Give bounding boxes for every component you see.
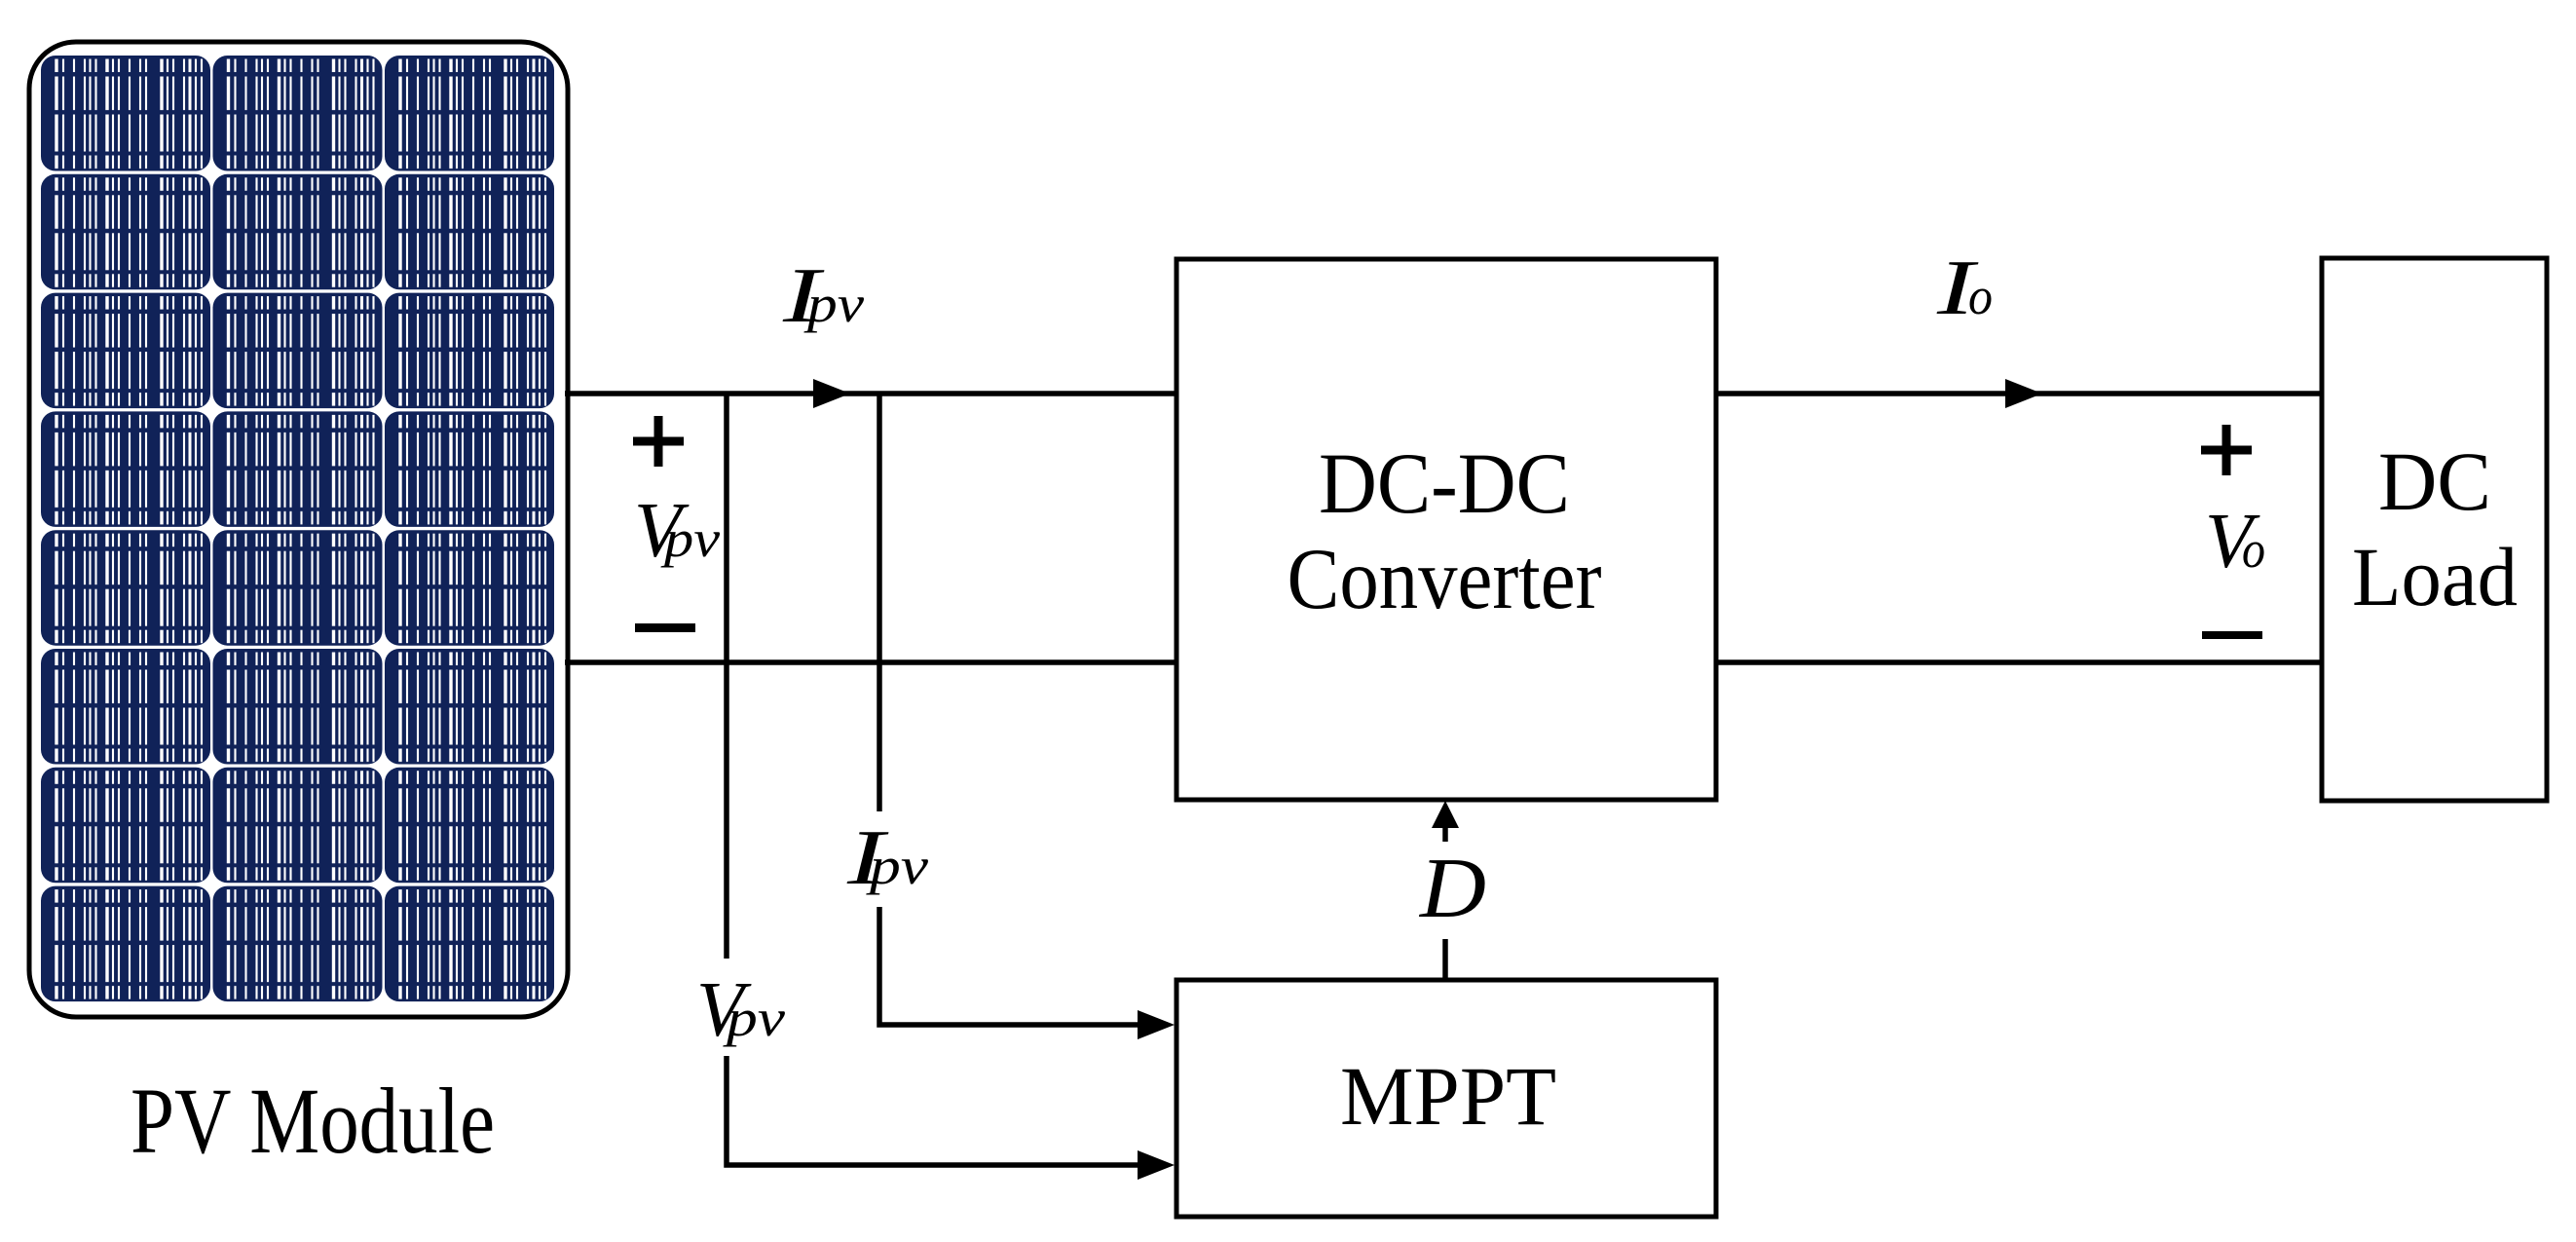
box DC-DC converter xyxy=(1176,259,1716,800)
svg-text:o: o xyxy=(1968,267,1993,325)
label minus right xyxy=(2202,631,2262,639)
wire top left xyxy=(565,391,1176,396)
wire Vpv sense vertical lower + horizontal into MPPT xyxy=(727,1056,1139,1165)
wire top right xyxy=(1716,391,2322,396)
svg-text:DC: DC xyxy=(2378,434,2491,528)
svg-text:D: D xyxy=(1419,842,1486,936)
label + right xyxy=(2201,425,2252,475)
PV module cells xyxy=(41,56,554,1001)
svg-text:pv: pv xyxy=(660,509,721,568)
svg-text:o: o xyxy=(2242,520,2265,579)
svg-text:pv: pv xyxy=(722,989,785,1047)
arrow Io on top-right wire xyxy=(2005,379,2042,408)
svg-text:DC-DC: DC-DC xyxy=(1319,436,1570,532)
svg-text:pv: pv xyxy=(803,275,864,333)
wire D stem upper xyxy=(1442,826,1448,842)
arrow Vpv into MPPT xyxy=(1138,1150,1175,1180)
box DC load xyxy=(2322,258,2547,801)
wire Vpv sense vertical upper xyxy=(724,392,729,960)
label + left xyxy=(633,416,684,467)
svg-text:PV Module: PV Module xyxy=(131,1069,495,1173)
wire Ipv sense vertical lower + horizontal into MPPT xyxy=(879,907,1139,1025)
PV module cell texture xyxy=(41,56,557,1005)
label minus left xyxy=(635,623,695,632)
arrow Ipv on top-left wire xyxy=(813,379,850,408)
arrow Ipv into MPPT xyxy=(1138,1010,1175,1039)
svg-text:MPPT: MPPT xyxy=(1340,1049,1556,1143)
wire bottom right xyxy=(1716,659,2322,665)
wire D stem lower xyxy=(1442,939,1448,980)
arrow D into converter xyxy=(1432,801,1459,828)
box MPPT xyxy=(1176,980,1716,1217)
svg-text:Converter: Converter xyxy=(1288,532,1602,627)
wire Ipv sense vertical upper xyxy=(877,392,882,812)
wire bottom left xyxy=(565,659,1176,665)
PV module frame xyxy=(29,42,568,1017)
svg-text:Load: Load xyxy=(2352,530,2518,623)
svg-text:pv: pv xyxy=(865,837,928,895)
